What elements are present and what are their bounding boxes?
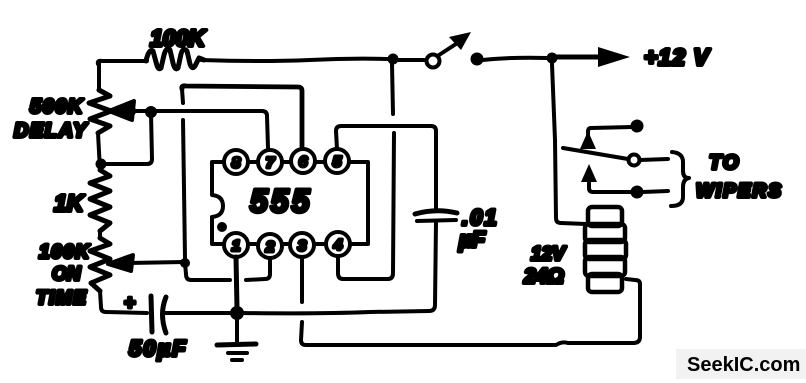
wire: pin 3 drop lower and bottom run to relay [301, 279, 640, 345]
svg-text:100K: 100K [39, 242, 90, 263]
relay contact top fixed line [591, 127, 632, 128]
relay armature blade [563, 148, 628, 159]
wire: +12V arrow shaft [557, 55, 601, 60]
junction dot on rail [96, 159, 107, 170]
wire: lower contact to brace [643, 191, 668, 192]
arrowhead +12V [598, 47, 630, 67]
svg-text:5: 5 [333, 154, 342, 171]
wire: pin 3 drop upper (hops ground rail) [300, 258, 304, 302]
brace to wipers [671, 152, 689, 206]
relay coil K1 loop 4 [585, 257, 625, 276]
junction dot +12V branch [547, 53, 558, 64]
relay coil K1 loop 5 [588, 274, 622, 292]
svg-text:100K: 100K [150, 25, 206, 51]
wire: ground stem [235, 318, 239, 343]
switch S1 arm [439, 42, 459, 55]
pin 6 circle [291, 149, 315, 173]
relay contact top fixed dot [631, 120, 644, 133]
relay coil K1 loop 1 [588, 207, 622, 226]
wire: wiper tie down to rail [103, 113, 152, 164]
capacitor C1 .01uF top plate [415, 211, 457, 214]
wire: pins 2-6 tie rail top horizontal and pin6 drop [182, 86, 302, 148]
wire: pin 2 drop and corner right piece [246, 258, 270, 280]
wire: ground rail left piece [106, 312, 147, 313]
resistor R1 100K [146, 49, 204, 69]
junction dot ground node [230, 306, 244, 320]
svg-text:1: 1 [232, 238, 240, 255]
svg-text:WIPERS: WIPERS [696, 181, 783, 202]
pin 1 circle [224, 233, 248, 257]
wire: tie rail to pin2 corner left piece [185, 263, 230, 280]
svg-text:TO: TO [709, 152, 740, 174]
wire: rail below R4 to ground rail corner [100, 291, 106, 312]
junction dot wiper/rail [180, 258, 190, 268]
switch S1 arm arrowhead [449, 32, 471, 50]
pin 5 circle [325, 149, 349, 173]
ground symbol bar 2 [228, 351, 247, 355]
ground symbol bar 1 [217, 344, 256, 345]
svg-text:50µF: 50µF [129, 336, 188, 361]
wire: tie rail vertical upper stub [182, 89, 183, 103]
relay blade circle terminal [629, 155, 640, 166]
wire: left vertical rail top segment [97, 62, 101, 90]
svg-text:2: 2 [265, 239, 275, 256]
relay contact lower dot [631, 186, 644, 199]
svg-text:12V: 12V [531, 244, 566, 265]
wire: pin 1 drop [236, 257, 237, 308]
svg-text:7: 7 [266, 155, 275, 172]
svg-text:SeekIC.com: SeekIC.com [687, 354, 800, 376]
junction dot top rail [388, 54, 399, 65]
svg-text:4: 4 [333, 237, 343, 254]
svg-text:DELAY: DELAY [14, 120, 88, 142]
IC U1 555 body outline with notch [212, 162, 368, 244]
wire: ground rail right piece to C1 [242, 305, 435, 313]
wire: ground rail middle piece [164, 311, 232, 315]
wire: C1 to ground rail [435, 222, 436, 305]
svg-text:+: + [124, 293, 135, 314]
relay contact lower arrow [581, 164, 597, 182]
svg-text:555: 555 [250, 183, 312, 219]
wiper arrow of R2 [109, 101, 134, 120]
wire: blade to brace [640, 159, 668, 160]
potentiometer R2 500K zigzag [89, 90, 111, 133]
pin 7 circle [258, 150, 282, 174]
wire: R4 wiper to pins rail [128, 262, 184, 263]
svg-text:24Ω: 24Ω [523, 265, 564, 288]
ground symbol bar 3 [232, 358, 242, 362]
potentiometer R4 100K ON TIME zigzag [90, 238, 110, 291]
svg-text:500K: 500K [30, 96, 84, 118]
resistor R3 1K [90, 170, 110, 231]
svg-text:+12 V: +12 V [644, 44, 710, 70]
relay contact top corner stub [588, 128, 591, 138]
junction dot on wiper wire [124, 105, 136, 117]
wiper arrow of R4 [108, 255, 133, 271]
wire: wiper line to pin 7 [130, 111, 268, 148]
pin 4 circle [326, 232, 350, 256]
capacitor C2 50uF right plate [163, 297, 167, 333]
relay contact top arrow [580, 131, 596, 149]
svg-text:TIME: TIME [36, 288, 87, 309]
pin 2 circle [258, 234, 282, 258]
wire: top rail left of R1 [98, 61, 147, 64]
relay contact lower stem and line [589, 179, 631, 192]
wire: pin 5 loop up right and down [336, 126, 436, 210]
switch S1 right terminal dot [471, 53, 484, 66]
wire: top rail R1 to junction [201, 59, 390, 61]
wire: +12V vertical lower to pin 4 loop [338, 133, 394, 279]
pin1 polarity dot inside U1 [217, 222, 227, 232]
svg-text:3: 3 [298, 238, 307, 255]
relay coil K1 loop 2 [585, 224, 625, 242]
wire: +12V vertical upper (hops pin5 wire) [392, 64, 393, 114]
wire: rail 1K to R4 [98, 231, 102, 238]
capacitor C2 50uF left plate [151, 296, 152, 332]
wire: switch to +12V junction [483, 58, 547, 60]
wire: tie rail vertical (hops wiper wire) [183, 120, 185, 258]
svg-text:6: 6 [299, 154, 308, 171]
watermark SeekIC.com [676, 349, 806, 379]
junction dot wiper tie [145, 106, 157, 118]
wire: +12V drop to relay coil [552, 64, 586, 224]
pin 8 circle [224, 150, 248, 174]
svg-text:1K: 1K [54, 190, 85, 216]
wire: rail 500K to 1K [98, 133, 100, 170]
wire: junction to switch [398, 58, 424, 62]
capacitor C1 bottom plate [417, 220, 456, 221]
svg-text:ON: ON [52, 264, 82, 285]
switch S1 open contact circle [427, 55, 440, 68]
svg-text:8: 8 [232, 155, 241, 172]
svg-text:µF: µF [458, 227, 486, 252]
relay coil K1 loop 3 [585, 240, 626, 259]
pin 3 circle [290, 233, 314, 257]
